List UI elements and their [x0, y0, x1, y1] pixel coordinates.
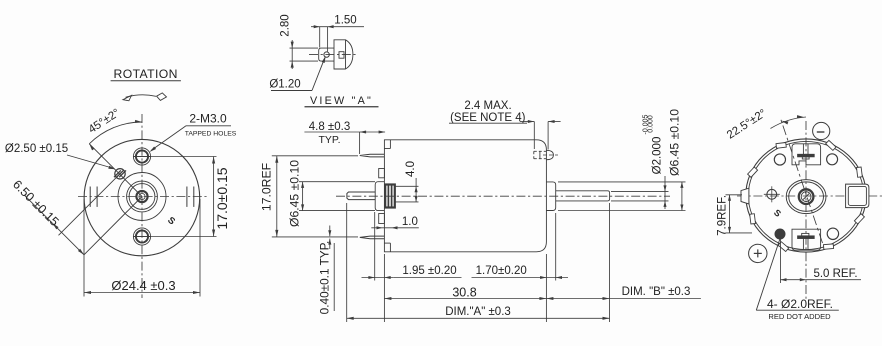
dimension 5.0 REF [780, 239, 782, 284]
left view: diagonal radial line to lower-left vertex [84, 197, 142, 255]
svg-text:Ø2.50 ±0.15: Ø2.50 ±0.15 [5, 143, 68, 155]
dimension row: 1.95 +-0.20 and 1.70 +-0.20 [374, 212, 376, 281]
svg-text:4- Ø2.0REF.: 4- Ø2.0REF. [767, 297, 833, 311]
side view: endbell tab upper [379, 169, 385, 178]
side view: armature center line [336, 195, 670, 197]
svg-text:2.4 MAX.: 2.4 MAX. [464, 100, 511, 112]
side view: motor body outline [384, 140, 546, 252]
dimension 30.8 (body length) [384, 298, 546, 300]
label 4-Ø2.0REF / RED DOT ADDED with leader [756, 239, 780, 311]
rotation direction arrow [126, 95, 157, 98]
svg-text:1.95 ±0.20: 1.95 ±0.20 [402, 265, 456, 277]
svg-text:4.0: 4.0 [405, 161, 417, 177]
svg-text:-0.005: -0.005 [643, 114, 650, 134]
left view: front outline circle Ø24.4 [84, 139, 200, 255]
svg-text:17.0REF: 17.0REF [260, 163, 274, 211]
dimension 6.50 +-0.15 diagonal [25, 196, 84, 255]
dimension arc 45 deg +-2 [89, 122, 142, 144]
svg-text:Ø2.000: Ø2.000 [652, 137, 664, 175]
dimension 17.0 +-0.15 (left view) [151, 156, 217, 158]
rear view: rim crimp tabs [854, 214, 864, 224]
svg-text:2.80: 2.80 [280, 14, 292, 36]
side view: rear shaft stub [347, 192, 375, 200]
rear view: right connector housing [846, 184, 869, 208]
dimension Ø2.000 (shaft) [611, 190, 669, 192]
svg-text:(SEE NOTE 4): (SEE NOTE 4) [450, 112, 526, 124]
rear view: outer circle [746, 139, 866, 252]
view A detail: slot notch [339, 52, 344, 59]
dimension Ø6.45 +-0.10 (left bearing housing) [299, 181, 375, 183]
dimension 17.0REF (terminal spacing) [272, 155, 358, 157]
svg-text:Ø24.4 ±0.3: Ø24.4 ±0.3 [111, 278, 175, 293]
svg-text:30.8: 30.8 [452, 285, 476, 299]
rear view: left key notch [741, 188, 749, 204]
svg-text:Ø6.45 ±0.10: Ø6.45 ±0.10 [667, 109, 681, 176]
dimension 2.80 (view A) [290, 47, 319, 49]
left view: shaft circle (bold) [136, 191, 147, 202]
svg-text:VIEW "A": VIEW "A" [310, 95, 373, 107]
rear view: 22.5 deg diagonal line [780, 117, 823, 243]
svg-text:TAPPED HOLES: TAPPED HOLES [185, 131, 237, 138]
rear view: red dot (filled) [775, 229, 785, 239]
rear view: shaft (bold) [799, 189, 814, 204]
svg-text:0.40±0.1 TYP.: 0.40±0.1 TYP. [318, 241, 332, 315]
rear view: top brush housing [792, 144, 821, 165]
left view: bottom M3 tapped hole [133, 228, 150, 245]
view A detail: shaft end with cross hole [319, 48, 334, 61]
side view: left bearing housing [375, 182, 384, 211]
rear view: center lines [805, 121, 807, 301]
left view: 45 deg diagonal line through small hole [89, 144, 142, 197]
side view: endbell tab lower [379, 214, 385, 224]
side view: bottom terminal tab [360, 236, 385, 239]
svg-text:1.50: 1.50 [334, 15, 356, 27]
side view: endbell corner notch bottom-left [389, 243, 391, 252]
rear view: mounting holes Ø2.0 [774, 154, 785, 165]
rear view: bottom brush housing [792, 229, 821, 250]
rear view: small pilot hole with cross [767, 189, 777, 199]
dimension 4.0 (bearing) [396, 185, 419, 187]
side view: top terminal tab [360, 154, 385, 157]
dimension arc 22.5 +-2 [771, 117, 807, 129]
dimension 0.40 +-0.1 TYP (terminal thickness) [329, 226, 331, 237]
svg-text:TYP.: TYP. [319, 134, 341, 146]
dimension 1.50 (view A) [319, 27, 321, 48]
svg-text:DIM."A" ±0.3: DIM."A" ±0.3 [445, 306, 511, 318]
left view: bearing ring circles [127, 181, 158, 212]
side view: endbell corner notch top-left [389, 140, 391, 149]
view A detail: center line [309, 54, 357, 56]
dimension DIM B +-0.3 [609, 203, 611, 322]
left view: side flat tick marks [89, 187, 91, 207]
dimension DIM A +-0.3 [346, 203, 348, 322]
rear view: plus terminal symbol [749, 244, 767, 262]
rear view: hub circles [786, 180, 826, 214]
side view: left bearing (bold) [385, 185, 395, 208]
view A detail: end cap with dome [334, 40, 353, 69]
svg-text:DIM. "B" ±0.3: DIM. "B" ±0.3 [622, 286, 691, 298]
svg-text:Ø6.45 ±0.10: Ø6.45 ±0.10 [288, 160, 302, 227]
svg-text:RED DOT ADDED: RED DOT ADDED [768, 312, 831, 321]
side view: right bearing boss [546, 182, 555, 211]
dimension 1.0 (endbell) [371, 227, 419, 229]
left view: small hole Ø2.50 (hatched) [115, 169, 125, 179]
dimension 7.9REF [726, 194, 743, 196]
svg-text:2-M3.0: 2-M3.0 [189, 112, 227, 126]
dimension Ø6.45 +-0.10 (right boss) [558, 181, 686, 183]
view A detail: cross hole Ø1.20 [324, 52, 329, 57]
rear view: minus terminal symbol [813, 122, 830, 139]
svg-text:1.70±0.20: 1.70±0.20 [476, 265, 527, 277]
dimension Ø24.4 +-0.3 [83, 199, 85, 297]
left view: center lines [141, 114, 143, 298]
svg-text:Ø1.20: Ø1.20 [269, 79, 300, 91]
rear view: inner rim circle [748, 141, 863, 249]
svg-text:1.0: 1.0 [402, 216, 418, 228]
side view: output shaft [556, 191, 610, 201]
left view: top M3 tapped hole [133, 148, 150, 165]
svg-text:4.8 ±0.3: 4.8 ±0.3 [309, 121, 350, 133]
svg-text:ROTATION: ROTATION [114, 67, 178, 81]
side view: hidden terminal (dashed) with bump [534, 150, 547, 152]
left view: mounting boss circle [118, 173, 166, 221]
dimension 4.8 +-0.3 TYP (terminal length) [359, 132, 361, 154]
svg-text:7.9REF.: 7.9REF. [717, 195, 729, 236]
svg-text:5.0 REF.: 5.0 REF. [813, 268, 857, 280]
svg-text:17.0±0.15: 17.0±0.15 [214, 167, 230, 229]
